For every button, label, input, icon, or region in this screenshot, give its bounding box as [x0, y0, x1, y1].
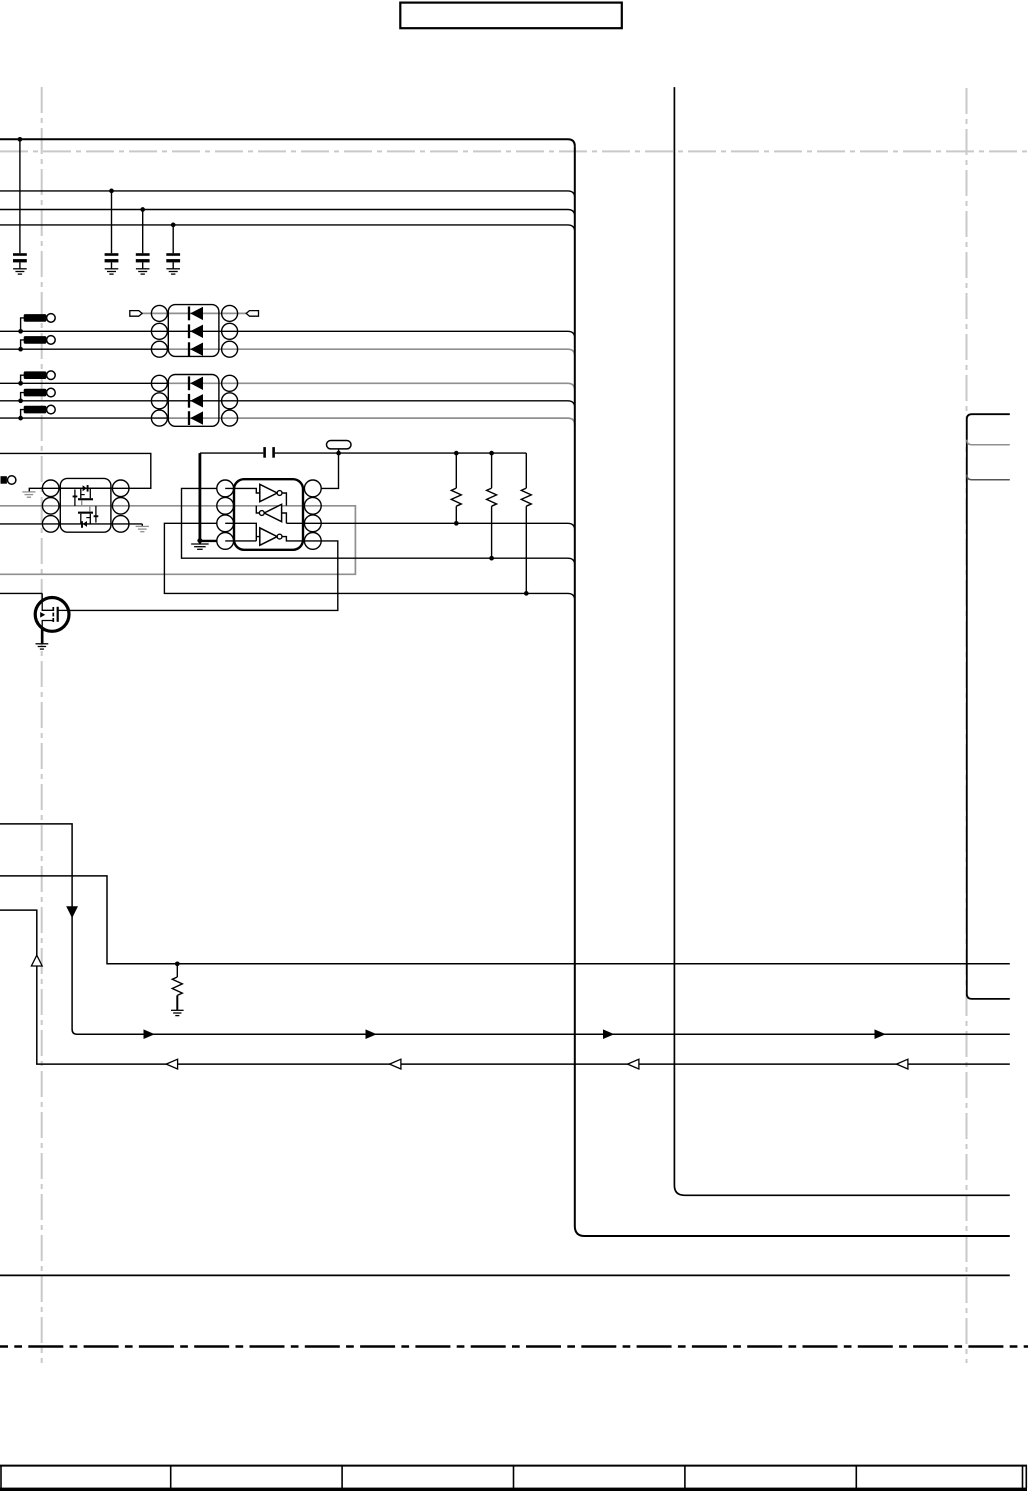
junction — [18, 137, 23, 142]
arrow right 1 — [144, 1029, 155, 1039]
junction — [489, 556, 494, 561]
transistor Q3 — [78, 512, 93, 514]
wire mosfet row3 gnd stub — [141, 524, 143, 526]
junction — [18, 329, 23, 334]
construction dash-dot vertical left — [41, 87, 43, 1363]
wire 4 — [0, 225, 575, 232]
thick ground rail — [198, 453, 201, 540]
wire gnd to U4 — [200, 540, 217, 542]
fold dash-dot line — [0, 1345, 1028, 1348]
ground — [136, 525, 149, 527]
capacitor C3 — [142, 210, 144, 254]
ferrite bead L2 — [21, 340, 25, 349]
ground — [171, 1009, 184, 1011]
wire plug row gray — [142, 312, 248, 314]
arrow left open 3 — [628, 1059, 639, 1069]
title box — [400, 3, 622, 29]
wire bus line A — [0, 331, 575, 338]
arrow right 2 — [366, 1029, 377, 1039]
arrow left open 4 — [897, 1059, 908, 1069]
gray net row2 — [0, 506, 355, 575]
wire bus line C left — [0, 382, 168, 384]
resistor R1 — [455, 453, 457, 488]
construction dash-dot horizontal — [0, 150, 1028, 152]
U4 pin circles — [217, 480, 234, 497]
wire row3 stub — [225, 523, 256, 541]
junction — [171, 223, 176, 228]
wire out1 step — [282, 493, 286, 506]
wire in1 step — [225, 488, 260, 493]
arrow down — [66, 906, 78, 918]
resistor R3 — [525, 453, 527, 488]
ferrite bead L4 — [21, 393, 25, 401]
junction — [489, 451, 494, 456]
capacitor C1 — [19, 139, 21, 253]
wire out3 step — [282, 537, 321, 541]
ferrite bead L1 — [21, 318, 25, 331]
wire sense — [0, 876, 1010, 964]
wire right stub 1 — [967, 414, 1010, 999]
wire Q1 source gnd — [41, 628, 44, 644]
arrow left open 2 — [390, 1059, 401, 1069]
wire mosfet row3 — [0, 523, 142, 525]
inverter B — [264, 504, 281, 521]
wire out2 step — [256, 506, 259, 513]
plug P1 — [130, 311, 142, 317]
arrow right 3 — [603, 1029, 614, 1039]
inverter C — [260, 528, 277, 545]
signal vertical — [674, 87, 1009, 1195]
wire bus line B left — [0, 348, 168, 350]
junction — [175, 961, 180, 966]
arrow up open — [31, 955, 42, 966]
inverter A — [260, 484, 277, 501]
inverter array U4 body — [234, 479, 303, 550]
junction — [18, 347, 23, 352]
wire left VCC stub — [0, 453, 151, 491]
wire Q1 drain — [0, 592, 42, 594]
diode D2 — [188, 324, 190, 338]
separator line — [0, 1274, 1010, 1276]
resistor R2 — [491, 453, 493, 488]
arrow left open 1 — [166, 1059, 177, 1069]
wire resistor rail — [200, 452, 263, 454]
wire U4 row4 to Q1 — [69, 541, 338, 611]
junction — [197, 538, 202, 543]
wire bus line E right gray — [168, 418, 575, 425]
diode array U2 body — [168, 375, 219, 427]
capacitor C2 — [111, 191, 113, 253]
construction dash-dot vertical right — [966, 88, 968, 1363]
plug P2 — [246, 311, 258, 317]
resistor R4 — [176, 964, 178, 977]
junction — [454, 521, 459, 526]
junction — [18, 416, 23, 421]
junction — [336, 451, 341, 456]
wire bus line D — [0, 401, 575, 408]
ground — [199, 541, 201, 544]
wire bus line E left — [0, 417, 168, 419]
U1 pin circles — [151, 305, 167, 321]
diode D4 — [188, 376, 190, 390]
diode D1 — [188, 307, 190, 321]
wire mosfet row1 internal — [60, 487, 111, 489]
diode D6 — [188, 411, 190, 425]
junction — [454, 451, 459, 456]
wire right stub 3 — [967, 475, 1010, 480]
wire 2 — [0, 191, 575, 198]
junction — [524, 591, 529, 596]
wire U4 in1 net — [182, 488, 575, 565]
wire 3 — [0, 210, 575, 217]
capacitor C4 — [172, 225, 174, 253]
arrow right 4 — [875, 1029, 886, 1039]
wire U4 row3 left net — [164, 523, 574, 600]
junction — [18, 398, 23, 403]
junction — [140, 207, 145, 212]
connector pad — [1, 476, 7, 484]
wire U4 row1 to pill — [321, 453, 338, 488]
wire VCC top — [0, 139, 575, 146]
junction — [18, 381, 23, 386]
U3 pin circles — [42, 480, 59, 497]
wire right stub 2 — [967, 440, 1010, 445]
diode array U1 body — [168, 305, 219, 357]
wire bus line C right gray — [168, 383, 575, 390]
transistor Q1 — [35, 598, 69, 632]
U2 pin circles — [151, 375, 167, 391]
wire in3 step — [225, 537, 260, 541]
diode D3 — [188, 342, 190, 356]
wire U4 row3 right — [286, 523, 574, 530]
transistor Q2 — [78, 498, 93, 500]
junction — [109, 189, 114, 194]
mosfet array U3 body — [60, 478, 111, 532]
ferrite bead L5 — [21, 410, 25, 419]
connector pin circle — [8, 476, 16, 484]
capacitor C5 — [263, 447, 266, 458]
wire bus line B right gray — [168, 349, 575, 356]
ground — [22, 491, 35, 493]
wire arrow in — [0, 910, 1010, 1064]
wire arrow out — [0, 824, 1010, 1034]
net label pill — [327, 441, 352, 449]
wire in2 step — [282, 513, 287, 523]
footer table — [0, 1465, 1027, 1467]
bus vertical — [575, 146, 1010, 1236]
ferrite bead L3 — [21, 375, 25, 383]
diode D5 — [188, 394, 190, 408]
ground — [36, 643, 49, 645]
